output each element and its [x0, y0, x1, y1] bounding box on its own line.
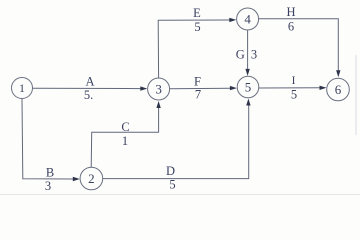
node 5	[237, 76, 259, 98]
wire E (3 up, right to 4)	[158, 18, 236, 78]
label D 5	[166, 164, 176, 192]
svg-text:D: D	[166, 164, 175, 178]
wire C (2 up, right, up to 3)	[91, 101, 161, 167]
page edge artifact bottom	[0, 193, 360, 195]
svg-text:I: I	[292, 75, 296, 87]
node 4	[237, 8, 259, 30]
svg-text:3: 3	[45, 179, 51, 193]
svg-text:5: 5	[291, 88, 297, 102]
svg-text:5: 5	[245, 80, 252, 95]
wire H (4 right, down to 6)	[259, 19, 341, 77]
svg-text:G: G	[236, 48, 245, 62]
label F 7	[194, 75, 201, 102]
label B 3	[45, 166, 54, 194]
svg-text:1: 1	[19, 81, 25, 95]
svg-text:F: F	[194, 75, 201, 89]
svg-text:H: H	[286, 5, 295, 19]
label A 5.	[84, 75, 95, 103]
wire I (5 to 6)	[259, 86, 327, 90]
wire B (1 down, right to 2)	[22, 99, 80, 182]
node 2	[80, 167, 103, 190]
svg-text:B: B	[46, 166, 54, 180]
label E 5	[193, 6, 201, 34]
label G 3	[236, 47, 257, 61]
page edge artifact right	[355, 55, 357, 135]
svg-text:5: 5	[194, 20, 200, 34]
wire F (3 to 5)	[170, 86, 237, 90]
svg-text:2: 2	[88, 171, 95, 186]
node 1	[12, 78, 33, 99]
label C 1	[121, 120, 129, 148]
svg-text:5: 5	[169, 178, 175, 192]
wire D (2 right, up to 5)	[103, 99, 251, 179]
svg-text:7: 7	[195, 88, 201, 102]
svg-text:1: 1	[122, 134, 128, 148]
node 6	[327, 78, 350, 101]
svg-text:3: 3	[155, 82, 162, 97]
node 3	[148, 78, 170, 100]
svg-text:5.: 5.	[84, 88, 93, 102]
svg-text:E: E	[193, 6, 201, 20]
label I 5	[291, 75, 297, 102]
svg-text:4: 4	[244, 12, 251, 27]
svg-text:3: 3	[251, 47, 257, 61]
svg-text:6: 6	[288, 20, 294, 34]
label H 6	[286, 5, 295, 34]
svg-text:C: C	[121, 120, 129, 134]
svg-text:6: 6	[335, 82, 342, 97]
wire A (1 to 3)	[33, 86, 148, 90]
wire G (4 down to 5)	[245, 30, 249, 76]
svg-text:A: A	[85, 75, 94, 89]
